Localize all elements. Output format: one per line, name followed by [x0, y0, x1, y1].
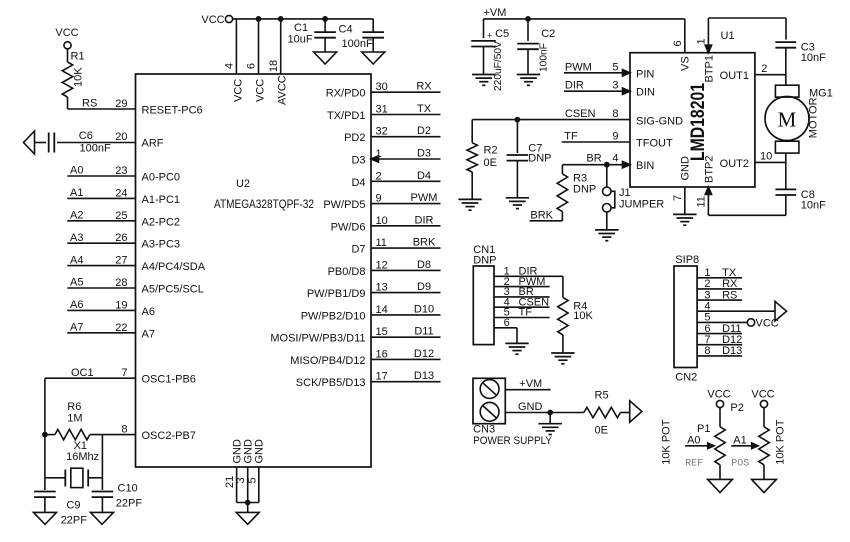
- svg-text:10nF: 10nF: [801, 199, 826, 211]
- svg-text:MOTOR: MOTOR: [808, 97, 820, 138]
- jumper J1: [603, 165, 665, 230]
- capacitor C7 DNP: [507, 117, 552, 198]
- capacitor C1 10uF: [288, 16, 336, 52]
- svg-text:11: 11: [696, 196, 708, 207]
- pin 5 (CN2): [697, 312, 747, 324]
- svg-text:R5: R5: [595, 390, 609, 402]
- svg-text:0E: 0E: [595, 424, 608, 436]
- offpage arrow (CN2 pin4): [775, 301, 787, 321]
- pin 12 PB0/D8 / net D8 wire (U2 right): [328, 259, 441, 278]
- svg-text:RESET-PC6: RESET-PC6: [142, 105, 203, 117]
- svg-text:R1: R1: [71, 51, 85, 63]
- svg-text:2: 2: [761, 63, 767, 75]
- wire net A0: [67, 165, 135, 177]
- pin 5 PIN (U1) / net PWM: [564, 61, 654, 80]
- svg-text:10K POT: 10K POT: [775, 419, 787, 465]
- svg-text:31: 31: [376, 104, 388, 116]
- svg-text:10K: 10K: [573, 310, 593, 322]
- wire VCC stub pin6: [256, 16, 262, 74]
- svg-text:17: 17: [376, 371, 388, 383]
- svg-text:A1: A1: [70, 187, 83, 199]
- wire net A1: [67, 187, 135, 199]
- svg-text:11: 11: [376, 237, 387, 249]
- pin 32 PD2 / net D2 wire (U2 right): [344, 125, 440, 144]
- svg-text:D13: D13: [414, 370, 434, 382]
- potentiometer P1 10K POT: [661, 389, 731, 480]
- svg-text:CSEN: CSEN: [565, 108, 596, 120]
- svg-text:2: 2: [704, 278, 710, 290]
- svg-text:1M: 1M: [67, 413, 82, 425]
- svg-text:REF: REF: [685, 459, 703, 470]
- svg-text:X1: X1: [74, 440, 87, 452]
- capacitor C6 100nF: [35, 130, 136, 154]
- svg-text:RS: RS: [722, 289, 737, 301]
- svg-text:A0-PC0: A0-PC0: [142, 172, 181, 184]
- svg-text:100nF: 100nF: [80, 143, 111, 155]
- pin 11 D7 / net BRK wire (U2 right): [351, 237, 440, 256]
- svg-text:CN3: CN3: [473, 424, 495, 436]
- pin 29 RESET-PC6 (U2): [115, 98, 202, 117]
- pin 17 SCK/PB5/D13 / net D13 wire (U2 right): [296, 370, 441, 389]
- wire OUT2 to motor: [785, 153, 787, 189]
- svg-text:20: 20: [115, 131, 127, 143]
- svg-text:RX/PD0: RX/PD0: [326, 88, 366, 100]
- svg-text:A7: A7: [70, 322, 83, 334]
- svg-text:BIN: BIN: [636, 160, 654, 172]
- svg-text:A1-PC1: A1-PC1: [142, 194, 181, 206]
- svg-text:R6: R6: [67, 401, 81, 413]
- resistor R2 0E: [467, 120, 498, 200]
- pin 1 BTP1 (U1): [696, 18, 716, 83]
- pin 7 (CN2) D12: [697, 334, 742, 346]
- crystal X1 16Mhz: [45, 435, 103, 488]
- svg-text:100nF: 100nF: [539, 43, 550, 72]
- pin 19 A6 (U2): [115, 299, 155, 318]
- svg-text:A5: A5: [70, 277, 83, 289]
- svg-text:4: 4: [612, 153, 618, 165]
- resistor R4 10K: [558, 276, 594, 353]
- ground (R4): [551, 353, 574, 364]
- pin 1 D3 / net D3 wire (U2 right): [351, 148, 440, 167]
- wire BTP2 rail to C8: [708, 214, 786, 216]
- svg-text:+: +: [487, 31, 492, 41]
- pin 2 (CN2) RX: [697, 278, 742, 290]
- pin 10 PW/D6 / net DIR wire (U2 right): [331, 214, 441, 233]
- offpage arrow ARF: [24, 131, 35, 154]
- svg-text:DIR: DIR: [415, 214, 434, 226]
- svg-text:RX: RX: [722, 278, 738, 290]
- svg-text:220uF/50V: 220uF/50V: [493, 41, 504, 91]
- svg-text:C6: C6: [79, 130, 93, 142]
- ground (J1): [595, 230, 618, 241]
- pin 4 VCC (U2 top): [224, 63, 245, 102]
- svg-text:7: 7: [704, 334, 710, 346]
- svg-text:GND: GND: [254, 439, 266, 464]
- svg-text:7: 7: [672, 195, 684, 201]
- svg-text:16: 16: [376, 348, 388, 360]
- svg-text:POWER SUPPLY: POWER SUPPLY: [473, 435, 553, 447]
- svg-text:M: M: [778, 108, 797, 132]
- svg-text:C5: C5: [495, 28, 509, 40]
- pin 8 (CN2) D13: [697, 345, 742, 357]
- svg-text:BTP1: BTP1: [704, 55, 716, 83]
- svg-text:RS: RS: [82, 97, 97, 109]
- pin 13 PW/PB1/D9 / net D9 wire (U2 right): [307, 281, 441, 300]
- svg-text:0E: 0E: [484, 157, 497, 169]
- pin 21 GND (U2 bottom): [224, 439, 244, 503]
- ground (C9): [34, 512, 57, 524]
- svg-text:LMD18201: LMD18201: [687, 83, 709, 161]
- pin 9 TFOUT (U1) / net TF: [562, 131, 673, 150]
- pin 7 OSC1-PB6 (U2): [121, 367, 196, 386]
- resistor R5 0E: [584, 390, 630, 437]
- wire VCC stub pin4: [235, 19, 237, 74]
- svg-text:BRK: BRK: [413, 237, 436, 249]
- wire net A5: [67, 277, 135, 289]
- ground (U1 pin7): [673, 214, 696, 225]
- svg-text:VCC: VCC: [233, 79, 245, 102]
- svg-text:OSC1-PB6: OSC1-PB6: [142, 374, 196, 386]
- svg-text:ARF: ARF: [142, 138, 164, 150]
- svg-text:MOSI/PW/PB3/D11: MOSI/PW/PB3/D11: [270, 333, 365, 345]
- svg-text:15: 15: [376, 326, 388, 338]
- svg-text:TX/PD1: TX/PD1: [327, 110, 366, 122]
- svg-text:10K POT: 10K POT: [661, 419, 673, 465]
- svg-text:R2: R2: [484, 145, 498, 157]
- svg-text:5: 5: [246, 477, 258, 483]
- svg-text:5: 5: [704, 312, 710, 324]
- wire +VM (CN3): [505, 378, 550, 390]
- pin 14 PW/PB2/D10 / net D10 wire (U2 right): [301, 303, 441, 322]
- pin 7 GND (U1): [672, 156, 692, 214]
- pin 3 (CN1) net BR: [494, 286, 550, 298]
- connector CN3 body: [473, 378, 553, 447]
- svg-text:32: 32: [376, 126, 388, 138]
- svg-text:3: 3: [612, 80, 618, 92]
- svg-text:VCC: VCC: [55, 27, 78, 39]
- pin 4 BIN (U1) / net BR: [562, 153, 654, 173]
- ground (P2): [752, 479, 777, 492]
- svg-text:4: 4: [224, 63, 236, 69]
- svg-text:A0: A0: [687, 434, 700, 446]
- capacitor C10 22PF: [92, 478, 143, 513]
- power flag VCC (U2 top): [201, 14, 373, 26]
- pin 2 OUT1 (U1): [720, 63, 786, 82]
- svg-text:1: 1: [696, 38, 708, 44]
- pin 22 A7 (U2): [115, 322, 155, 341]
- capacitor C2 100nF: [517, 16, 555, 75]
- potentiometer P2 10K POT: [730, 389, 786, 480]
- svg-text:AVCC: AVCC: [277, 75, 289, 105]
- wire AVCC stub pin18: [278, 16, 284, 74]
- svg-text:C9: C9: [66, 500, 80, 512]
- svg-text:100nF: 100nF: [342, 38, 373, 50]
- svg-text:D4: D4: [417, 170, 431, 182]
- wire net A2: [67, 210, 135, 222]
- IC U1 label: [721, 30, 735, 42]
- wire OC1 net: [45, 367, 136, 435]
- connector CN2 SIP8 body: [674, 254, 699, 383]
- svg-text:PW/PD5: PW/PD5: [323, 199, 365, 211]
- svg-text:PW/PB1/D9: PW/PB1/D9: [307, 288, 366, 300]
- svg-text:PD2: PD2: [344, 132, 365, 144]
- pin 10 OUT2 (U1): [720, 151, 786, 170]
- svg-text:D7: D7: [351, 244, 365, 256]
- svg-text:PB0/D8: PB0/D8: [328, 266, 366, 278]
- ground (C7): [506, 198, 529, 209]
- pin 2 D4 / net D4 wire (U2 right): [351, 170, 440, 189]
- junction (R6 left): [42, 432, 48, 438]
- svg-text:D3: D3: [351, 155, 365, 167]
- svg-text:30: 30: [376, 81, 388, 93]
- ground (CN3): [539, 424, 562, 435]
- svg-text:2: 2: [376, 170, 382, 182]
- svg-text:PWM: PWM: [565, 61, 592, 73]
- resistor R6 1M: [45, 401, 136, 440]
- svg-text:A2-PC2: A2-PC2: [142, 216, 181, 228]
- svg-text:C1: C1: [294, 22, 308, 34]
- svg-text:22PF: 22PF: [116, 498, 143, 510]
- svg-text:18: 18: [268, 60, 280, 72]
- svg-text:P2: P2: [730, 402, 743, 414]
- wire BTP1 to C3: [708, 18, 786, 40]
- pin 6 VCC (U2 top): [246, 63, 267, 102]
- svg-text:JUMPER: JUMPER: [619, 199, 664, 211]
- svg-text:6: 6: [504, 317, 510, 329]
- power flag +VM: [484, 7, 685, 19]
- svg-text:D13: D13: [722, 345, 742, 357]
- svg-text:A1: A1: [733, 434, 746, 446]
- svg-text:SIG-GND: SIG-GND: [636, 116, 683, 128]
- ground (C4): [362, 52, 385, 64]
- svg-text:TF: TF: [519, 307, 533, 319]
- svg-text:D4: D4: [351, 177, 365, 189]
- svg-text:9: 9: [376, 193, 382, 205]
- pin 31 TX/PD1 / net TX wire (U2 right): [327, 103, 441, 122]
- svg-text:TFOUT: TFOUT: [636, 138, 673, 150]
- capacitor C4 100nF: [339, 19, 385, 52]
- capacitor C3 10nF: [775, 40, 826, 86]
- svg-text:PIN: PIN: [636, 68, 654, 80]
- screw terminal 1 (CN3): [480, 380, 499, 399]
- svg-text:10K: 10K: [73, 67, 85, 87]
- pin 4 (CN1) net CSEN: [494, 296, 550, 308]
- pin 20 ARF (U2): [115, 131, 164, 150]
- svg-text:10: 10: [760, 151, 772, 163]
- ground (C5): [472, 75, 495, 86]
- svg-text:SCK/PB5/D13: SCK/PB5/D13: [296, 377, 366, 389]
- wire BRK net: [530, 209, 563, 221]
- svg-text:10: 10: [376, 215, 388, 227]
- ground (C1): [314, 52, 337, 64]
- pin 6 (CN2) D11: [697, 323, 742, 335]
- wire GND (CN3): [505, 401, 584, 424]
- svg-text:VCC: VCC: [756, 317, 779, 329]
- pin 28 A5/PC5/SCL (U2): [115, 277, 204, 296]
- svg-text:6: 6: [672, 40, 684, 46]
- wire net A6: [67, 299, 135, 311]
- svg-text:VCC: VCC: [255, 79, 267, 102]
- svg-text:U1: U1: [721, 30, 735, 42]
- svg-text:A3: A3: [70, 232, 83, 244]
- svg-text:4: 4: [704, 300, 710, 312]
- svg-text:A7: A7: [142, 328, 155, 340]
- wire net A4: [67, 254, 135, 266]
- svg-text:D11: D11: [414, 326, 433, 338]
- svg-text:10nF: 10nF: [801, 52, 826, 64]
- svg-text:ATMEGA328TQPF-32: ATMEGA328TQPF-32: [214, 199, 314, 211]
- svg-text:A3-PC3: A3-PC3: [142, 239, 181, 251]
- svg-text:12: 12: [376, 259, 388, 271]
- svg-text:6: 6: [246, 63, 258, 69]
- power flag VCC (CN2 pin5): [747, 317, 778, 329]
- svg-text:D10: D10: [414, 303, 434, 315]
- svg-text:22PF: 22PF: [61, 515, 88, 527]
- offpage arrow (R5): [630, 401, 642, 422]
- svg-text:A2: A2: [70, 210, 83, 222]
- svg-text:A0: A0: [70, 165, 83, 177]
- capacitor C9 22PF: [34, 478, 87, 527]
- pin 2 (CN1) net PWM: [494, 276, 550, 288]
- svg-text:P1: P1: [697, 423, 710, 435]
- pin 24 A1-PC1 (U2): [115, 187, 180, 206]
- pin 8 SIG-GND (U1) / net CSEN: [472, 108, 683, 128]
- svg-text:16Mhz: 16Mhz: [66, 451, 99, 463]
- pin 6 VS (U1): [672, 19, 692, 71]
- pin 1 (CN1) net DIR: [494, 266, 563, 278]
- svg-text:5: 5: [612, 61, 618, 73]
- svg-text:OUT2: OUT2: [720, 158, 749, 170]
- svg-text:C10: C10: [118, 483, 138, 495]
- svg-text:VS: VS: [680, 56, 692, 71]
- svg-text:D12: D12: [722, 334, 742, 346]
- svg-text:PWM: PWM: [411, 192, 438, 204]
- svg-text:OC1: OC1: [71, 367, 94, 379]
- svg-text:PW/D6: PW/D6: [331, 221, 366, 233]
- pin 18 AVCC (U2 top): [268, 60, 289, 105]
- pin 3 (CN2) RS: [697, 289, 742, 301]
- motor MG1: [765, 85, 833, 153]
- wire RS net: [68, 97, 136, 109]
- svg-text:D12: D12: [414, 348, 434, 360]
- svg-text:8: 8: [612, 108, 618, 120]
- ground (C10): [91, 512, 114, 524]
- ground (U2 bottom): [236, 512, 259, 524]
- svg-text:MISO/PB4/D12: MISO/PB4/D12: [290, 355, 365, 367]
- resistor R3 DNP: [557, 165, 596, 221]
- junction (BR / J1): [604, 162, 610, 168]
- svg-text:DIR: DIR: [565, 80, 584, 92]
- svg-text:PW/PB2/D10: PW/PB2/D10: [301, 310, 366, 322]
- svg-text:DNP: DNP: [473, 255, 496, 267]
- pin 25 A2-PC2 (U2): [115, 210, 180, 229]
- ground (C2): [517, 75, 540, 86]
- screw terminal 2 (CN3): [480, 402, 499, 421]
- svg-text:A4: A4: [70, 254, 83, 266]
- pin 4 (CN2): [697, 300, 775, 312]
- pin 30 RX/PD0 / net RX wire (U2 right): [326, 81, 441, 100]
- svg-text:D3: D3: [417, 148, 431, 160]
- ground (P1): [708, 479, 733, 492]
- svg-text:DNP: DNP: [573, 184, 596, 196]
- svg-text:U2: U2: [236, 178, 250, 190]
- svg-text:D8: D8: [417, 259, 431, 271]
- svg-text:VCC: VCC: [201, 14, 224, 26]
- wire GND join (U2 bottom): [237, 500, 259, 513]
- ground (CN1 pin6): [505, 343, 528, 354]
- ground (R2): [458, 199, 481, 210]
- svg-text:BRK: BRK: [530, 209, 553, 221]
- svg-text:A4/PC4/SDA: A4/PC4/SDA: [142, 261, 206, 273]
- svg-text:RX: RX: [416, 81, 432, 93]
- svg-text:VCC: VCC: [751, 389, 774, 401]
- pin 5 (CN1) net TF: [494, 307, 550, 319]
- svg-text:D2: D2: [417, 125, 431, 137]
- capacitor C8 10nF: [775, 189, 826, 216]
- pin 16 MISO/PB4/D12 / net D12 wire (U2 right): [290, 348, 440, 367]
- pin 27 A4/PC4/SDA (U2): [115, 255, 205, 274]
- pin 9 PW/PD5 / net PWM wire (U2 right): [323, 192, 440, 211]
- pin 11 BTP2 (U1): [696, 155, 716, 215]
- svg-text:GND: GND: [518, 401, 543, 413]
- svg-text:14: 14: [376, 304, 388, 316]
- power flag VCC (bottom spare): [0, 0, 1, 1]
- svg-text:OSC2-PB7: OSC2-PB7: [142, 430, 196, 442]
- svg-text:DNP: DNP: [528, 153, 551, 165]
- svg-text:9: 9: [612, 131, 618, 143]
- svg-text:CN2: CN2: [675, 372, 697, 384]
- pin 15 MOSI/PW/PB3/D11 / net D11 wire (U2 right): [270, 326, 440, 345]
- svg-text:C2: C2: [541, 28, 555, 40]
- svg-text:SIP8: SIP8: [675, 254, 699, 266]
- svg-text:13: 13: [376, 282, 388, 294]
- svg-text:GND: GND: [679, 156, 691, 181]
- svg-text:A6: A6: [70, 299, 83, 311]
- svg-text:TF: TF: [564, 131, 578, 143]
- pin 1 (CN2) TX: [697, 267, 742, 279]
- connector CN1 DNP body: [473, 244, 496, 345]
- pin 8 OSC2-PB7 (U2): [121, 424, 196, 443]
- svg-text:+VM: +VM: [519, 378, 542, 390]
- IC U2 ATMEGA328TQPF-32 body: [136, 74, 372, 467]
- svg-text:8: 8: [704, 345, 710, 357]
- wire net A3: [67, 232, 135, 244]
- svg-text:A5/PC5/SCL: A5/PC5/SCL: [142, 284, 204, 296]
- svg-text:+VM: +VM: [484, 7, 507, 19]
- IC U1 LMD18201 body: [630, 53, 755, 187]
- svg-text:10uF: 10uF: [288, 34, 313, 46]
- pin 26 A3-PC3 (U2): [115, 232, 180, 251]
- svg-text:J1: J1: [619, 187, 631, 199]
- svg-text:DIN: DIN: [636, 87, 655, 99]
- svg-text:C4: C4: [339, 24, 353, 36]
- svg-text:OUT1: OUT1: [720, 70, 749, 82]
- svg-text:BR: BR: [586, 153, 601, 165]
- svg-text:D9: D9: [417, 281, 431, 293]
- capacitor C5 220uF/50V: [471, 19, 509, 91]
- power flag VCC (R1 top): [55, 27, 78, 49]
- pin 23 A0-PC0 (U2): [115, 165, 180, 184]
- wire net A7: [67, 322, 135, 334]
- pin 3 DIN (U1) / net DIR: [564, 80, 655, 99]
- pin 6 (CN1) net GND: [494, 317, 517, 343]
- pin 5 GND (U2 bottom): [246, 439, 265, 503]
- svg-text:TX: TX: [417, 103, 432, 115]
- pin 3 GND (U2 bottom): [235, 439, 254, 503]
- svg-text:BTP2: BTP2: [703, 155, 715, 183]
- resistor R1 10K: [62, 49, 84, 109]
- svg-text:VCC: VCC: [707, 389, 730, 401]
